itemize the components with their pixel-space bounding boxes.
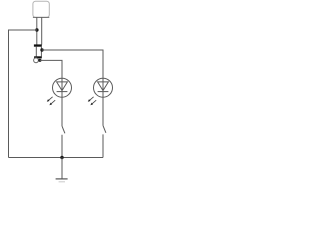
switch S1 <box>62 126 65 133</box>
switch S2 <box>103 126 106 133</box>
wire: bottom rail <box>9 157 104 159</box>
plug insulating band 1 <box>34 44 42 46</box>
LED D2 emission arrows <box>88 97 96 105</box>
LED D1 emission arrows <box>47 97 55 105</box>
plug tip ball <box>34 58 39 63</box>
plug ring segment <box>36 47 41 57</box>
LED D2 <box>94 78 113 97</box>
node: ground junction dot <box>60 156 63 159</box>
plug insulating band 2 <box>34 56 42 58</box>
wire: S1 to bottom rail <box>61 135 63 158</box>
wire: D2 cathode to switch S2 <box>102 97 104 125</box>
wire: tip to left branch top <box>40 60 62 78</box>
wire: sleeve to left rail <box>9 30 37 158</box>
audio plug J1 body <box>33 1 49 17</box>
audio plug shaft (sleeve barrel) <box>37 17 42 44</box>
ground <box>56 158 68 182</box>
node: tip junction dot <box>38 59 41 62</box>
LED D1 <box>53 78 72 97</box>
wire: ring to right branch top <box>42 50 103 78</box>
node: sleeve junction dot <box>35 28 38 31</box>
node: ring junction dot <box>40 48 43 51</box>
wire: S2 to bottom rail <box>102 134 104 157</box>
wire: D1 cathode to switch S1 <box>61 97 63 126</box>
